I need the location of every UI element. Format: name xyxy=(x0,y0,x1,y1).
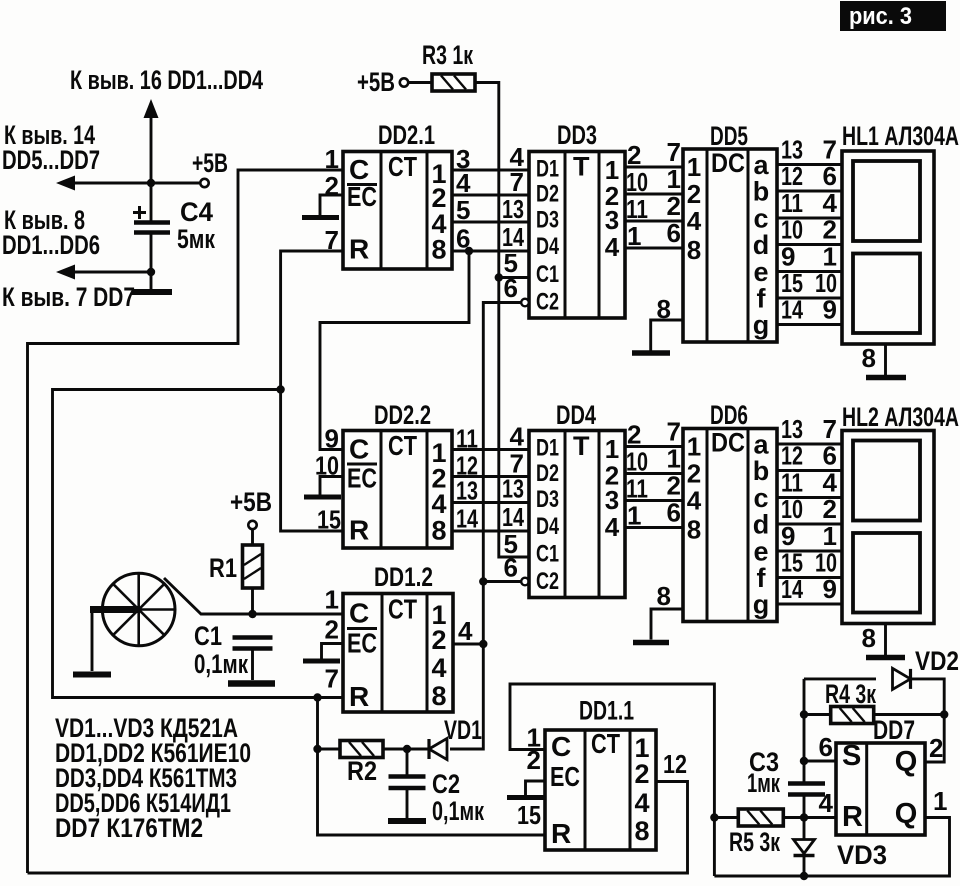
label DD3 xyxy=(557,120,597,150)
svg-text:d: d xyxy=(753,510,770,540)
pin 15 DD6 xyxy=(781,548,803,578)
svg-text:c: c xyxy=(753,483,768,513)
label DD2.2 xyxy=(374,400,431,430)
svg-text:4: 4 xyxy=(823,188,838,218)
pin 4 HL2 xyxy=(823,468,838,498)
resistor R3 xyxy=(432,74,475,91)
bubble DD3 C2 input xyxy=(521,299,529,307)
svg-text:8: 8 xyxy=(862,343,876,373)
svg-text:13: 13 xyxy=(781,414,803,444)
pin 11 DD5 xyxy=(781,188,803,218)
svg-text:D3: D3 xyxy=(536,486,559,513)
label HL1 АЛ304А xyxy=(842,121,959,151)
wire DD2.1 out2 to D2 xyxy=(452,194,529,197)
svg-text:VD1: VD1 xyxy=(444,715,482,745)
svg-text:6: 6 xyxy=(667,498,681,528)
svg-text:4: 4 xyxy=(823,468,838,498)
wire DD3 out3 xyxy=(625,220,683,223)
wire bottom rail right xyxy=(714,818,949,877)
svg-text:CT: CT xyxy=(591,728,620,759)
capacitor C2 xyxy=(389,749,426,818)
svg-text:Q: Q xyxy=(895,798,918,830)
terminal +5B R3 xyxy=(400,78,408,86)
bubble DD4 C2 input xyxy=(521,578,529,586)
svg-text:1: 1 xyxy=(667,444,681,474)
pin 7 HL2 xyxy=(823,414,837,444)
svg-text:6: 6 xyxy=(667,218,681,248)
svg-text:e: e xyxy=(753,537,768,567)
wire DD3 C2 to DD4 C2 xyxy=(483,303,521,582)
counter DD1.1 xyxy=(545,728,656,850)
wire C3 to R row xyxy=(803,795,806,818)
pin 9 DD2.2 xyxy=(325,424,339,454)
svg-text:C: C xyxy=(349,598,369,629)
label C4 5мк xyxy=(177,197,215,254)
svg-text:4: 4 xyxy=(687,486,702,516)
svg-text:2: 2 xyxy=(325,171,339,201)
svg-text:10: 10 xyxy=(815,548,837,578)
svg-text:10: 10 xyxy=(815,268,837,298)
svg-text:DC: DC xyxy=(711,428,745,458)
pin 2 DD5 xyxy=(667,191,681,221)
terminal +5B xyxy=(200,179,208,187)
svg-text:7: 7 xyxy=(823,414,837,444)
svg-text:C1: C1 xyxy=(536,261,559,288)
svg-text:1: 1 xyxy=(627,501,641,531)
svg-text:1: 1 xyxy=(667,164,681,194)
ground DD6 xyxy=(633,640,669,646)
pin 7 DD6 xyxy=(667,417,681,447)
pin 6 DD4 xyxy=(504,553,518,583)
svg-text:2: 2 xyxy=(929,733,943,763)
wire DD6 g xyxy=(777,603,842,606)
label DD7 xyxy=(873,715,915,745)
pin 13 DD5 xyxy=(781,135,803,165)
wire DD5 e xyxy=(777,270,842,273)
node R4 left xyxy=(800,710,808,718)
pin 9 HL1 xyxy=(823,295,837,325)
pin 14 DD6 xyxy=(781,574,803,604)
ground C1 xyxy=(228,680,275,687)
svg-text:CT: CT xyxy=(388,594,417,625)
wire S pin DD7 xyxy=(804,760,836,763)
indicator HL2 xyxy=(842,431,934,624)
svg-text:e: e xyxy=(753,257,768,287)
pin 14 DD3 xyxy=(502,222,524,252)
pin 7 DD5 xyxy=(667,137,681,167)
svg-text:DD6: DD6 xyxy=(710,400,748,430)
wire R net down xyxy=(316,698,319,750)
svg-text:D1: D1 xyxy=(536,156,559,183)
svg-text:4: 4 xyxy=(819,788,834,818)
decoder DD5 xyxy=(683,148,777,342)
pin 2 DD2.1 xyxy=(325,171,339,201)
svg-text:DD4: DD4 xyxy=(556,400,596,430)
svg-text:T: T xyxy=(573,431,590,461)
node R net DD1.2 xyxy=(313,693,321,701)
svg-text:0,1мк: 0,1мк xyxy=(194,649,248,679)
wire DD1.2 out2 xyxy=(453,643,483,646)
pin 15 DD2.2 xyxy=(317,505,341,535)
wire DD5 b xyxy=(777,190,842,193)
wire R4 right xyxy=(874,713,945,716)
node C2 net at DD4 xyxy=(479,577,487,585)
wire DD2.1 out4 to D3 xyxy=(452,221,529,224)
pin 6 DD6 xyxy=(667,498,681,528)
svg-text:6: 6 xyxy=(823,161,837,191)
svg-text:D4: D4 xyxy=(536,233,559,260)
label К выв. 7 DD7 xyxy=(2,282,135,312)
wire DD5 a xyxy=(777,163,842,166)
svg-text:D2: D2 xyxy=(536,460,559,487)
pin 10 DD3 xyxy=(626,167,648,197)
svg-text:15: 15 xyxy=(317,505,341,535)
svg-text:5: 5 xyxy=(456,195,470,225)
ground HL2 xyxy=(866,655,905,661)
pin 9 HL2 xyxy=(823,574,837,604)
svg-text:8: 8 xyxy=(431,681,446,711)
svg-text:a: a xyxy=(753,150,769,180)
diode VD2 xyxy=(893,668,911,689)
svg-text:2: 2 xyxy=(823,215,837,245)
wire C2 net down to DD1.2 out xyxy=(482,582,485,645)
svg-text:9: 9 xyxy=(325,424,339,454)
counter DD2.2 xyxy=(343,430,452,548)
label +5B xyxy=(192,148,228,178)
pin 1 HL2 xyxy=(823,521,837,551)
wire HL1 ground xyxy=(884,344,887,375)
pin 13 DD4 xyxy=(502,474,524,504)
label DD5 xyxy=(710,121,748,151)
pin 15 DD5 xyxy=(781,268,803,298)
svg-text:DD7 К176ТМ2: DD7 К176ТМ2 xyxy=(55,813,203,843)
ground common bar xyxy=(132,289,172,295)
pin 1 DD3 xyxy=(627,221,641,251)
svg-text:4: 4 xyxy=(605,232,620,262)
svg-text:К выв. 16 DD1...DD4: К выв. 16 DD1...DD4 xyxy=(70,65,263,95)
svg-text:EC: EC xyxy=(347,463,377,494)
svg-text:8: 8 xyxy=(657,581,671,611)
node VD3 ground rail xyxy=(800,872,808,880)
wire R3 to C1 inputs xyxy=(475,83,499,278)
wire to R2 xyxy=(318,748,341,751)
pin 6 DD7 xyxy=(819,732,833,762)
wire S net vertical xyxy=(803,679,806,783)
pin 10 HL1 xyxy=(815,268,837,298)
node DD1.2 out net xyxy=(479,640,487,648)
pin 14 DD2.2 xyxy=(456,504,478,534)
svg-text:13: 13 xyxy=(781,135,803,165)
wire DD3 out2 xyxy=(625,193,683,196)
svg-text:15: 15 xyxy=(781,548,803,578)
svg-text:g: g xyxy=(753,590,770,620)
node R1 C1 sensor xyxy=(248,610,256,618)
wire down to DD4 C1 xyxy=(499,278,529,558)
wire net to VD1 anode xyxy=(450,644,483,749)
svg-text:R: R xyxy=(842,801,863,833)
svg-text:6: 6 xyxy=(823,441,837,471)
wire DD5 f xyxy=(777,297,842,300)
wire DD3 C1 xyxy=(499,276,529,279)
svg-text:15: 15 xyxy=(781,268,803,298)
svg-text:2: 2 xyxy=(325,615,339,645)
pin 10 HL2 xyxy=(815,548,837,578)
svg-text:T: T xyxy=(573,152,590,182)
wire DD6 e xyxy=(777,550,842,553)
svg-text:R3 1к: R3 1к xyxy=(422,40,473,70)
capacitor C4 xyxy=(133,206,170,272)
pin 6 HL1 xyxy=(823,161,837,191)
wire DD6 a xyxy=(777,443,842,446)
wire DD6 ground xyxy=(651,609,683,640)
svg-text:7: 7 xyxy=(823,135,837,165)
svg-text:15: 15 xyxy=(517,800,541,830)
pin 7 DD1.2 xyxy=(325,664,339,694)
svg-text:14: 14 xyxy=(781,295,803,325)
pin 13 DD2.2 xyxy=(456,476,478,506)
decoder DD6 xyxy=(683,428,777,622)
svg-text:12: 12 xyxy=(781,441,803,471)
pin 12 DD5 xyxy=(781,161,803,191)
svg-text:+5В: +5В xyxy=(230,487,272,517)
svg-text:11: 11 xyxy=(781,468,803,498)
pin 6 DD5 xyxy=(667,218,681,248)
wire +5V feed left arrow xyxy=(74,182,151,185)
resistor R4 xyxy=(831,707,874,724)
svg-text:С2: С2 xyxy=(432,769,460,799)
label DD1.1 xyxy=(579,696,634,726)
label VD1 xyxy=(444,715,482,745)
wire DD2.2 out1 to D1 xyxy=(452,448,529,451)
svg-text:DD7: DD7 xyxy=(873,715,915,745)
label HL2 АЛ304А xyxy=(842,402,959,432)
label К выв. 8 DD1...DD6 xyxy=(2,205,100,260)
arrow to pin 16 DD1-DD4 xyxy=(144,99,159,118)
pin 12 DD6 xyxy=(781,441,803,471)
svg-text:14: 14 xyxy=(502,502,524,532)
wire DD2.1 C input from DD1.1 xyxy=(28,170,344,873)
pin 11 DD4 xyxy=(626,474,648,504)
svg-text:1: 1 xyxy=(687,152,701,182)
svg-text:R5 3к: R5 3к xyxy=(729,827,780,857)
svg-text:10: 10 xyxy=(781,215,803,245)
svg-text:К выв. 7 DD7: К выв. 7 DD7 xyxy=(2,282,135,312)
wire VD2 to Q xyxy=(911,679,945,762)
svg-text:DD1.2: DD1.2 xyxy=(374,562,433,592)
wire DD5 ground xyxy=(651,320,683,351)
pin 1 HL1 xyxy=(823,242,837,272)
svg-text:0,1мк: 0,1мк xyxy=(432,796,484,826)
ground sensor xyxy=(73,672,111,678)
svg-text:DD5: DD5 xyxy=(710,121,748,151)
pin 6 HL2 xyxy=(823,441,837,471)
figure label рис. 3 xyxy=(840,1,946,31)
svg-text:7: 7 xyxy=(667,417,681,447)
wire C4 to ground xyxy=(150,272,153,290)
pin 2 DD3 xyxy=(627,140,641,170)
label DD1.2 xyxy=(374,562,433,592)
wire VD2 row xyxy=(804,677,876,680)
svg-text:10: 10 xyxy=(781,494,803,524)
wire DD5 d xyxy=(777,243,842,246)
wire R net to DD1.2 xyxy=(53,390,344,698)
svg-text:1: 1 xyxy=(933,786,947,816)
pin 2 DD4 xyxy=(627,420,641,450)
pin 11 DD2.2 xyxy=(456,424,478,454)
svg-text:R4 3к: R4 3к xyxy=(825,679,876,709)
label R2 xyxy=(347,756,377,786)
wire DD4 out3 xyxy=(625,499,683,502)
svg-text:6: 6 xyxy=(504,553,518,583)
pin 11 DD6 xyxy=(781,468,803,498)
node C3 bottom xyxy=(800,813,808,821)
svg-text:c: c xyxy=(753,204,768,234)
node R3 to DD3 C1 xyxy=(495,273,503,281)
svg-text:D4: D4 xyxy=(536,513,559,540)
node GND junction xyxy=(147,268,155,276)
pin 8 DD6 xyxy=(657,581,671,611)
svg-text:R2: R2 xyxy=(347,756,377,786)
pin 4 DD7 xyxy=(819,788,834,818)
svg-text:d: d xyxy=(753,230,770,260)
svg-text:8: 8 xyxy=(687,235,701,265)
svg-text:2: 2 xyxy=(627,420,641,450)
svg-text:6: 6 xyxy=(819,732,833,762)
svg-text:Q: Q xyxy=(895,746,918,778)
svg-text:R1: R1 xyxy=(209,553,237,583)
svg-text:3: 3 xyxy=(605,205,619,235)
terminal +5B R1 xyxy=(248,521,256,529)
svg-text:1: 1 xyxy=(325,585,339,615)
node R4 right xyxy=(940,710,948,718)
svg-text:13: 13 xyxy=(502,474,524,504)
svg-text:D1: D1 xyxy=(536,435,559,462)
arrow to pin 8 DD1-DD6 xyxy=(56,265,75,280)
svg-text:7: 7 xyxy=(510,167,524,197)
label +5B at R3 xyxy=(357,67,395,97)
node out8 branch xyxy=(465,247,473,255)
svg-text:9: 9 xyxy=(823,574,837,604)
wire DD5 c xyxy=(777,217,842,220)
wire out8 to DD2.2 C xyxy=(320,251,469,450)
wire DD2.2 out8 to D4 xyxy=(452,530,529,533)
label C1 0,1мк xyxy=(194,621,248,679)
sensor disc xyxy=(90,573,175,646)
svg-text:11: 11 xyxy=(626,194,648,224)
svg-text:2: 2 xyxy=(431,625,446,655)
wire DD1.1 EC stub xyxy=(526,781,546,796)
svg-text:DD5...DD7: DD5...DD7 xyxy=(2,145,100,175)
svg-text:g: g xyxy=(753,310,770,340)
wire DD3 out1 xyxy=(625,166,683,169)
pin 4 DD2.1 xyxy=(456,168,471,198)
svg-text:2: 2 xyxy=(634,759,649,789)
svg-text:2: 2 xyxy=(687,459,701,489)
wire DD1.1 C from DD7 xyxy=(510,684,714,876)
wire DD2.1 out1 to D1 xyxy=(452,169,529,172)
svg-text:C: C xyxy=(349,434,369,465)
svg-text:a: a xyxy=(753,430,769,460)
svg-text:DC: DC xyxy=(711,148,745,178)
pin 2 DD1.1 xyxy=(527,745,541,775)
svg-text:5мк: 5мк xyxy=(177,224,215,254)
svg-text:+5В: +5В xyxy=(192,148,228,178)
counter DD2.1 xyxy=(343,151,452,269)
svg-text:C1: C1 xyxy=(536,541,559,568)
wire DD2.1 EC stub xyxy=(320,195,343,215)
wire GND feed left arrow xyxy=(74,271,151,274)
svg-text:9: 9 xyxy=(781,242,795,272)
pin 5 DD4 xyxy=(504,529,518,559)
diode VD3 xyxy=(794,818,815,877)
svg-text:11: 11 xyxy=(626,474,648,504)
pin 2 DD1.2 xyxy=(325,615,339,645)
pin 8 HL2 xyxy=(862,623,876,653)
wire DD4 out4 xyxy=(625,526,683,529)
wire HL2 ground xyxy=(884,624,887,656)
svg-text:1: 1 xyxy=(605,434,619,464)
pin 1 DD1.1 xyxy=(527,723,541,753)
svg-text:D2: D2 xyxy=(536,181,559,208)
pin 8 HL1 xyxy=(862,343,876,373)
svg-text:DD2.2: DD2.2 xyxy=(374,400,431,430)
svg-text:10: 10 xyxy=(626,447,648,477)
label VD2 xyxy=(915,646,959,676)
pin 13 DD3 xyxy=(502,194,524,224)
node +5V junction xyxy=(147,179,155,187)
svg-text:7: 7 xyxy=(667,137,681,167)
resistor R5 xyxy=(738,809,783,826)
label DD4 xyxy=(556,400,596,430)
label К выв. 14 DD5...DD7 xyxy=(2,120,100,175)
wire R5 to DD7 R xyxy=(783,816,836,819)
svg-text:D3: D3 xyxy=(536,207,559,234)
pin 4 DD1.2 xyxy=(458,616,473,646)
svg-text:1: 1 xyxy=(687,432,701,462)
svg-text:8: 8 xyxy=(634,816,649,846)
svg-text:4: 4 xyxy=(431,653,446,683)
pin 2 HL1 xyxy=(823,215,837,245)
svg-text:HL2 АЛ304А: HL2 АЛ304А xyxy=(842,402,959,432)
label VD3 xyxy=(837,840,887,870)
pin 12 DD1.1 xyxy=(663,749,687,779)
wire +5V to R3 xyxy=(409,81,433,84)
node S net xyxy=(800,757,808,765)
svg-text:DD1.1: DD1.1 xyxy=(579,696,634,726)
pin 14 DD4 xyxy=(502,502,524,532)
svg-text:рис. 3: рис. 3 xyxy=(849,3,912,30)
svg-text:8: 8 xyxy=(862,623,876,653)
wire sensor to DD1.2 C xyxy=(164,578,343,614)
node R2 left xyxy=(313,745,321,753)
pin 4 HL1 xyxy=(823,188,838,218)
pin 3 DD2.1 xyxy=(456,144,470,174)
svg-text:13: 13 xyxy=(502,194,524,224)
label C2 0,1мк xyxy=(432,769,484,826)
svg-text:4: 4 xyxy=(605,512,620,542)
svg-text:DD1...DD6: DD1...DD6 xyxy=(2,230,100,260)
wire to +5V terminal xyxy=(151,182,200,185)
label R5 3к xyxy=(729,827,780,857)
pin 5 DD3 xyxy=(504,248,518,278)
pin 11 DD3 xyxy=(626,194,648,224)
svg-text:8: 8 xyxy=(431,516,446,546)
svg-text:12: 12 xyxy=(781,161,803,191)
wire DD6 b xyxy=(777,469,842,472)
label DD2.1 xyxy=(378,120,435,150)
svg-text:R: R xyxy=(349,234,369,265)
wire DD3 out4 xyxy=(625,247,683,250)
